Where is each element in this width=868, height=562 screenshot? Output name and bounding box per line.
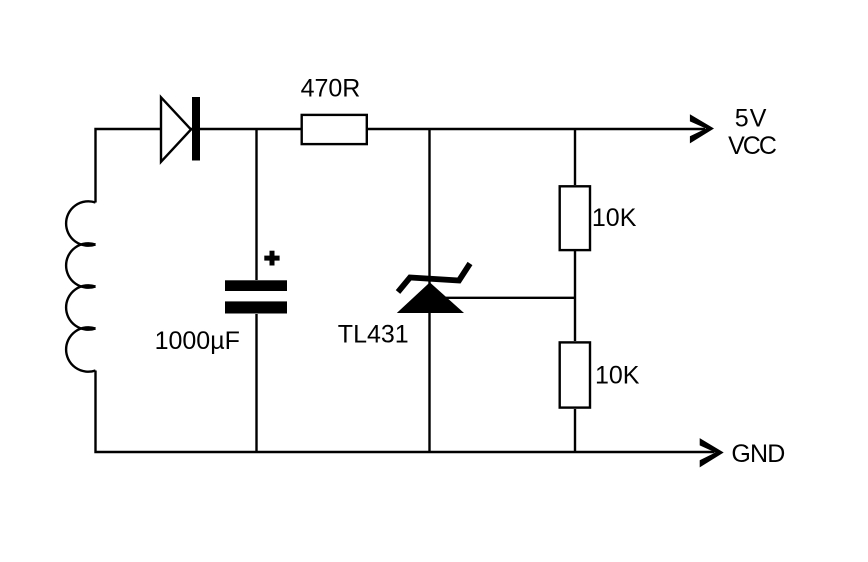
svg-text:5V: 5V [735,105,768,133]
svg-text:VCC: VCC [728,132,777,160]
svg-text:10K: 10K [595,362,640,390]
svg-text:GND: GND [731,440,784,468]
svg-text:1000µF: 1000µF [155,327,240,355]
svg-text:10K: 10K [592,204,637,232]
svg-text:TL431: TL431 [338,321,409,349]
svg-text:470R: 470R [301,75,361,103]
